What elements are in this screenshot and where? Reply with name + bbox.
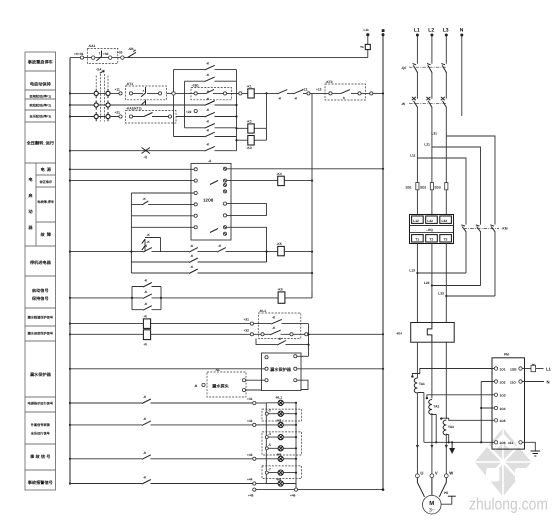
svg-text:L31: L31: [431, 132, 437, 136]
svg-text:-KH: -KH: [396, 332, 402, 336]
svg-text:L12: L12: [413, 219, 419, 223]
svg-text:-K3: -K3: [247, 146, 252, 150]
svg-text:+42: +42: [247, 419, 253, 423]
svg-text:L11: L11: [410, 154, 416, 158]
wire tap L21: [424, 143, 480, 225]
svg-text:-K6: -K6: [278, 288, 283, 292]
svg-text:-SL: -SL: [215, 368, 220, 372]
svg-text:L32: L32: [442, 219, 448, 223]
coil K3 fed from right rail: [235, 128, 266, 150]
svg-text:1O4: 1O4: [500, 407, 506, 411]
wire top rung L: [70, 57, 368, 59]
switch SB emergency on top rung: [117, 47, 136, 58]
node bus junctions: [69, 92, 71, 484]
svg-text:-HL1: -HL1: [275, 396, 282, 400]
vertical x308.5: [308, 324, 310, 357]
wire row y227.3: [131, 226, 194, 228]
ground arrow CT return: [449, 442, 455, 454]
node sub-bus junctions: [311, 180, 313, 275]
parallel contact group box: [132, 279, 161, 311]
terminal on top rung after box: [121, 56, 124, 59]
svg-text:-KT1: -KT1: [126, 82, 133, 86]
svg-text:12O8: 12O8: [203, 198, 214, 203]
breaker QF pole3: [441, 64, 446, 73]
controller right terminals: [223, 167, 226, 235]
PM terminal 102: [494, 380, 505, 385]
breaker QF pole2: [427, 64, 432, 73]
svg-text:漏水超温保护信号: 漏水超温保护信号: [28, 316, 54, 320]
svg-text:+21: +21: [115, 111, 121, 115]
svg-text:启动信号: 启动信号: [32, 288, 49, 293]
svg-text:-5: -5: [268, 443, 271, 447]
coil KA5 on rung251: [277, 242, 313, 256]
wire tap L11: [410, 154, 466, 225]
terminals before KL box: [244, 318, 254, 336]
watermark zhulong logo: [475, 428, 532, 497]
coil K1 on rung1: [242, 85, 267, 98]
svg-text:zhulong.com: zhulong.com: [469, 496, 548, 514]
svg-text:器: 器: [27, 225, 33, 230]
svg-text:+45: +45: [248, 494, 254, 498]
svg-text:7: 7: [99, 52, 101, 56]
svg-text:3~: 3~: [429, 508, 435, 514]
wire N phase down: [461, 37, 463, 117]
relay box SB1 dashed inner on rung1: [175, 83, 238, 100]
svg-text:故 障: 故 障: [40, 232, 51, 237]
svg-text:x: x: [143, 89, 145, 93]
wire rung y262: [131, 252, 266, 263]
lamp HL4: [265, 432, 297, 440]
svg-text:-KM: -KM: [502, 226, 508, 230]
svg-text:PM: PM: [504, 353, 509, 357]
node rung1 x266.5: [265, 92, 267, 94]
svg-text:+22: +22: [186, 110, 192, 114]
wire rung y368.8 bus to leak box: [70, 368, 265, 370]
wire leak box right to N: [297, 368, 383, 370]
wire row y204.4 with contact: [131, 197, 194, 205]
terminal rung1: [119, 92, 122, 95]
node y169 N: [382, 168, 384, 170]
relay box KA2 dashed on rung3: [126, 106, 177, 123]
svg-text:1O5: 1O5: [500, 419, 506, 423]
wire L23 bypass: [424, 281, 481, 286]
svg-text:+11: +11: [115, 87, 120, 91]
fuse FU L11 control supply: [360, 28, 370, 58]
wire right terminal 227.3 down to rung 251.6: [227, 227, 267, 251]
svg-text:L1: L1: [546, 366, 552, 371]
svg-text:1O2: 1O2: [500, 380, 506, 384]
relay box KT3 dashed right on rung1: [312, 80, 370, 100]
lamp box HL7 dashed: [262, 466, 302, 479]
wire rung y334.3 with element: [70, 330, 250, 347]
svg-text:启: 启: [28, 193, 32, 198]
svg-text:-7: -7: [268, 467, 271, 471]
svg-text:全压起动(停F3): 全压起动(停F3): [28, 115, 51, 119]
svg-text:TA1: TA1: [419, 382, 425, 386]
svg-text:-KL1: -KL1: [259, 309, 266, 313]
svg-text:W: W: [449, 470, 453, 475]
wire rung y251.6: [70, 244, 278, 252]
CT TA3: [440, 417, 454, 435]
node N bus top tick: [382, 29, 385, 32]
thermal relay box KH: [396, 323, 454, 343]
svg-text:TA3: TA3: [448, 425, 454, 429]
connector arrow V line: [430, 445, 433, 449]
svg-text:L22: L22: [427, 219, 433, 223]
relay box KL dashed: [254, 309, 305, 339]
leak protector box: [262, 353, 302, 391]
switch QM pole3: [441, 97, 447, 108]
svg-text:+13: +13: [316, 88, 322, 92]
wire phases below KH: [417, 342, 446, 444]
node rung junctions on N bus: [382, 92, 384, 370]
lamp HL1: [266, 396, 297, 406]
wire rung y424.9 lamp3: [70, 417, 266, 426]
wire TA2 return: [432, 415, 436, 443]
wire rung y458.8 lamp6: [70, 451, 266, 460]
svg-text:-SA1: -SA1: [88, 44, 95, 48]
switch QM pole2: [426, 97, 432, 108]
wire tap L31: [431, 132, 495, 225]
switch SA1 selector box top-left: [78, 44, 118, 63]
sub-bus x312 vertical: [311, 93, 313, 298]
coil K2 fed from right rail: [235, 93, 266, 133]
svg-text:+03: +03: [117, 51, 123, 55]
probe terminals: [242, 379, 245, 392]
node N terminal: [460, 28, 464, 37]
lamp HL2: [265, 409, 297, 417]
wire x308.5 into leak box top right: [297, 355, 309, 357]
svg-text:事 故 信 号: 事 故 信 号: [30, 454, 50, 459]
wire rung y180.6 to controller: [70, 180, 194, 182]
terminal rung1 right: [370, 92, 373, 95]
svg-text:-K4: -K4: [277, 172, 282, 176]
PM terminal 104: [494, 406, 505, 411]
connector arrow U line: [416, 445, 419, 449]
svg-text:SD3: SD3: [434, 186, 440, 190]
contact row y104.8 marks: [205, 97, 215, 106]
svg-text:--RQ: --RQ: [426, 228, 433, 232]
lamp box HL2 dashed: [262, 409, 302, 421]
svg-text:-SB1: -SB1: [192, 83, 199, 87]
svg-text:TA2: TA2: [434, 405, 440, 409]
svg-text:+46: +46: [290, 494, 296, 498]
wire rung1 to N bus: [373, 92, 383, 94]
svg-text:T2: T2: [429, 238, 433, 242]
contactor KM pole1: [461, 225, 466, 232]
svg-text:保持信号: 保持信号: [31, 296, 49, 301]
controller box 1208: [191, 159, 231, 240]
wire TA1 return: [417, 393, 424, 443]
wire motor leads: [417, 478, 446, 497]
svg-text:电启动保持: 电启动保持: [30, 82, 52, 87]
svg-text:PE: PE: [444, 491, 448, 495]
svg-text:停机进电器: 停机进电器: [30, 260, 52, 265]
PM terminal 110 to N: [510, 379, 550, 384]
svg-text:N: N: [547, 379, 550, 384]
wire L33 bypass: [438, 292, 495, 297]
terminal network left: [172, 92, 175, 95]
wire TA3 secondary to PM105: [441, 418, 494, 420]
wire CT return bus to PM106: [424, 441, 494, 443]
terminal before sub-bus on rung1: [302, 88, 310, 95]
terminal rung3: [119, 115, 122, 118]
PM terminal 111 to ground: [508, 441, 540, 456]
svg-text:111: 111: [508, 441, 513, 445]
svg-text:-K5: -K5: [277, 242, 282, 246]
contact row y69.6: [174, 62, 237, 71]
svg-text:+31: +31: [244, 318, 250, 322]
wire rung y483.5 lamp8: [70, 476, 266, 485]
coil KA4 on y180.6: [227, 172, 312, 186]
PM terminal 105: [494, 419, 505, 424]
wire L2 phase: [431, 37, 433, 216]
svg-text:漏水保护器: 漏水保护器: [270, 367, 292, 372]
contact row y136.5: [174, 128, 237, 137]
CT TA1: [411, 375, 425, 393]
node L2 terminal: [428, 28, 434, 37]
wire L13 bypass: [409, 269, 466, 274]
svg-text:-KA2(KT2): -KA2(KT2): [126, 106, 142, 110]
node right rail crossings: [235, 104, 237, 118]
svg-text:L2: L2: [428, 28, 434, 34]
lamp HL8: [266, 477, 296, 486]
lamp HL5: [265, 443, 297, 451]
wire TA3 return: [446, 435, 448, 443]
wire rung1 KT box to network: [167, 92, 173, 94]
svg-text:L1: L1: [414, 28, 420, 34]
left label table frame: [25, 52, 56, 490]
relay box KT1 dashed on rung1: [126, 82, 167, 100]
svg-text:+44: +44: [247, 478, 253, 482]
svg-text:-4: -4: [268, 432, 271, 436]
svg-text:漏水保护器: 漏水保护器: [30, 372, 52, 377]
table row texts: [26, 60, 55, 485]
selector SA contacts rows: [94, 89, 110, 121]
wire phases to thermal relay: [417, 243, 446, 323]
contact inside controller bottom: [210, 229, 218, 233]
svg-text:-KT3: -KT3: [326, 80, 333, 84]
node motor terminal U: [416, 470, 424, 477]
wire rung 2 (y105): [70, 104, 237, 106]
contact row y127.8: [185, 120, 237, 129]
svg-text:1OB: 1OB: [510, 367, 517, 371]
contactor KM pole2: [476, 225, 481, 232]
lamp column rails: [266, 403, 296, 490]
svg-text:电故障,停车: 电故障,停车: [37, 200, 55, 204]
svg-text:1O3: 1O3: [500, 394, 506, 398]
svg-text:L23: L23: [424, 281, 430, 285]
wire rung y323.6 with element: [70, 314, 250, 328]
leak probe box dashed: [207, 368, 246, 397]
svg-text:全压翻转, 运行: 全压翻转, 运行: [26, 141, 55, 146]
svg-text:合区指示: 合区指示: [39, 180, 53, 184]
power meter box PM: [492, 353, 525, 449]
PM terminal 108 fuse to L1: [510, 364, 552, 371]
svg-text:U: U: [420, 470, 423, 475]
svg-text:+01: +01: [78, 52, 84, 56]
svg-text:T3: T3: [444, 238, 448, 242]
wire probe to leak box: [246, 380, 265, 390]
svg-text:-QF: -QF: [401, 66, 407, 70]
wire rung y150.7 with breaker X: [70, 143, 237, 159]
svg-text:L33: L33: [438, 292, 444, 296]
wire row y215.8: [131, 215, 194, 217]
wire N control bus: [382, 33, 384, 490]
fuse SD2: [420, 183, 434, 190]
parallel contact pair box above rung251: [142, 233, 161, 252]
contactor KM pole3: [490, 225, 495, 232]
svg-text:-SB: -SB: [128, 47, 134, 51]
svg-text:外置信号联锁: 外置信号联锁: [30, 423, 51, 427]
node L3 terminal: [443, 28, 449, 37]
controller left terminals: [194, 168, 197, 229]
coil KA6 on rung297.9: [278, 288, 313, 304]
wire lines to motor terminals: [417, 444, 446, 474]
svg-text:漏水探头: 漏水探头: [212, 383, 230, 388]
svg-text:1O1: 1O1: [500, 367, 506, 371]
svg-text:L21: L21: [424, 143, 430, 147]
wire row y193: [131, 192, 194, 194]
breaker QF pole1: [413, 64, 418, 73]
motor M circle: [423, 495, 442, 514]
node L1 terminal: [414, 28, 420, 37]
node motor terminal V: [430, 470, 438, 477]
terminal before coil K1: [239, 92, 242, 95]
svg-text:电 源: 电 源: [40, 167, 51, 172]
contact inside controller top: [210, 181, 218, 185]
wire rung y273: [131, 265, 312, 273]
wire rung3 to network: [176, 116, 237, 118]
svg-text:T1: T1: [415, 238, 419, 242]
probe stub terminal: [194, 383, 205, 387]
breaker QF link and label: [401, 66, 447, 70]
svg-text:软起起动(停F2): 软起起动(停F2): [29, 103, 51, 107]
wire L3 phase: [445, 37, 447, 216]
svg-text:b: b: [343, 96, 345, 100]
terminal top rung left: [74, 52, 84, 59]
svg-text:+43: +43: [247, 453, 253, 457]
wire KL upper row to x308.5: [301, 323, 309, 325]
svg-text:全压运行信号: 全压运行信号: [30, 432, 51, 436]
lamp HL6: [266, 453, 297, 462]
node rung251 junctions: [130, 251, 267, 253]
contact KT vertical between rung1 and rung2: [142, 100, 146, 105]
svg-text:-Q: -Q: [144, 155, 148, 159]
contact network vertical left rail 1: [173, 70, 175, 137]
CT TA2: [426, 397, 440, 415]
svg-text:事故报警信号: 事故报警信号: [28, 480, 53, 485]
svg-text:变频起动(停F1): 变频起动(停F1): [29, 94, 51, 98]
svg-text:a: a: [207, 89, 209, 93]
leak box terminals: [265, 355, 297, 382]
lamp box HL45 dashed: [262, 432, 302, 455]
wire TA2 secondary to PM103: [427, 395, 494, 398]
svg-text:漏水进度保护信号: 漏水进度保护信号: [28, 332, 54, 336]
svg-text:L3: L3: [443, 28, 449, 34]
svg-text:11O: 11O: [510, 380, 516, 384]
contact network vertical right rail: [236, 70, 238, 151]
svg-text:SD1: SD1: [406, 186, 412, 190]
wire L1 phase: [416, 37, 418, 216]
wire rung y403 lamp1: [70, 395, 266, 404]
contact row y116.5 marks: [205, 108, 215, 117]
node motor terminal W: [444, 470, 453, 477]
soft starter box RQ: [410, 215, 454, 244]
feeder vertical x131.4: [130, 193, 132, 273]
svg-text:-K2: -K2: [247, 120, 252, 124]
svg-text:-SA: -SA: [96, 68, 102, 72]
terminal and wire rung y334.3 to N: [305, 333, 383, 336]
fuse SD1: [406, 183, 420, 190]
wire left control bus: [69, 58, 71, 484]
svg-text:+02: +02: [103, 52, 109, 56]
contact row y81.2: [185, 73, 237, 82]
wire PM 102/104 jumper: [480, 382, 494, 444]
wire KM drops to taps: [466, 232, 495, 296]
svg-text:N: N: [460, 28, 464, 34]
PM terminal 101: [494, 367, 505, 372]
selector SA dashed position lines: [96, 68, 108, 122]
PM terminal 103: [494, 393, 505, 398]
contact pair on rung1 right: [267, 90, 313, 101]
switch QM link and label: [401, 102, 447, 106]
switch QM pole1: [412, 97, 418, 108]
svg-text:L11: L11: [364, 28, 370, 32]
wire bottom return to N: [248, 484, 384, 498]
svg-text:+32: +32: [244, 328, 250, 332]
svg-text:L13: L13: [409, 269, 415, 273]
wire rung y297.9 through group: [70, 290, 278, 299]
svg-text:1O6: 1O6: [500, 441, 506, 445]
fuse SD3: [434, 183, 448, 190]
svg-text:-W: -W: [401, 102, 405, 106]
lamp HL7: [265, 467, 297, 475]
wire motor PE: [441, 491, 456, 504]
wire rung 3 (y116.5): [70, 116, 119, 118]
svg-text:M: M: [429, 500, 434, 507]
contact network vertical left rail 2: [184, 81, 186, 128]
lamp HL3: [266, 419, 297, 428]
wire leak box lower-right U-loop: [297, 380, 308, 389]
svg-text:-2: -2: [268, 409, 271, 413]
wire rung y169.3 to controller and N: [70, 168, 383, 171]
wire rung 1 (y93.4) selector to KT box: [70, 92, 119, 94]
svg-text:电源指示运行信号: 电源指示运行信号: [28, 402, 54, 406]
connector arrow W line: [445, 445, 448, 449]
terminal y111: [194, 109, 197, 112]
wire bypass y344.6 with contact: [256, 337, 310, 346]
contactor KM link and label: [464, 226, 508, 230]
svg-text:SD2: SD2: [420, 186, 426, 190]
svg-text:+12: +12: [302, 88, 308, 92]
svg-text:+41: +41: [247, 397, 253, 401]
wire TA1 secondary to PM101: [412, 369, 494, 377]
svg-text:V: V: [435, 470, 438, 475]
svg-text:-K1: -K1: [247, 85, 252, 89]
PM terminal 106: [494, 441, 505, 446]
wire U-link right terminals 203.6/215.4: [227, 204, 267, 216]
svg-text:事故重启停车: 事故重启停车: [28, 60, 54, 65]
